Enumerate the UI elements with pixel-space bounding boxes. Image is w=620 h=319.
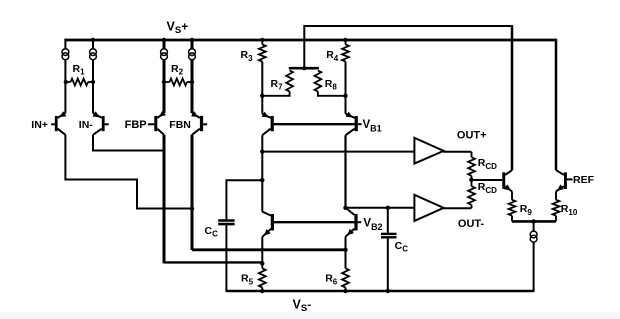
node rail-I3 junction <box>162 38 166 42</box>
label R10 <box>561 203 578 217</box>
label R1 <box>73 63 86 77</box>
resistor R6 <box>342 268 349 291</box>
wire current source I2 (IN- tail) to emitter <box>92 60 94 113</box>
wire CC1 branch <box>226 180 262 219</box>
current source I3 (FBP tail) <box>161 49 168 60</box>
svg-text:R10: R10 <box>561 203 578 217</box>
wire current source I3 (FBP tail) to emitter <box>163 60 166 113</box>
transistor Q5 cascode left (PNP) <box>262 112 274 136</box>
wire CC2 branch down <box>387 208 389 233</box>
label R3 <box>241 49 254 63</box>
current source I5 (output stage tail) <box>530 231 537 242</box>
wire rail to current source I3 (FBP tail) <box>163 39 166 49</box>
resistor R3 <box>259 40 266 96</box>
wire VB1 base line <box>274 123 355 125</box>
wire IN- collector to FBP collector <box>93 135 164 151</box>
wire CC2 bottom to VS- rail <box>387 239 389 291</box>
svg-text:IN+: IN+ <box>31 119 48 131</box>
label VS+ <box>167 20 189 37</box>
op-amp buffer B (OUT-) <box>414 195 443 221</box>
wire CM tap top line <box>304 25 512 27</box>
capacitor C1 (CC left) <box>218 221 234 225</box>
op-amp buffer A (OUT+) <box>414 138 443 164</box>
label FBP <box>125 119 147 131</box>
node R6 thick-net junction <box>343 248 347 252</box>
node left highZ buffer tap <box>260 149 264 153</box>
label R4 <box>326 49 339 63</box>
node R5 top <box>260 261 264 265</box>
label REF <box>573 174 595 186</box>
wire buffer B input line <box>346 207 415 209</box>
svg-text:R3: R3 <box>241 49 254 63</box>
resistor R9 <box>509 191 516 221</box>
node RCD center <box>469 178 473 182</box>
label VB1 <box>363 119 382 133</box>
svg-text:VB1: VB1 <box>363 119 382 133</box>
node rail-I4 junction <box>190 38 194 42</box>
transistor Q10 REF (NPN) <box>556 170 573 191</box>
label OUT+ <box>457 130 487 142</box>
wire R7-R8 apex bar <box>289 67 319 70</box>
wire buffer B output <box>443 207 471 209</box>
svg-text:FBN: FBN <box>169 119 191 131</box>
label R5 <box>241 273 254 287</box>
node R1 right <box>91 80 95 84</box>
svg-text:FBP: FBP <box>125 119 147 131</box>
transistor Q8 second stage right VB2 (NPN) <box>346 208 362 237</box>
node left cascode top <box>260 94 264 98</box>
node rail-R3 junction <box>260 38 264 42</box>
resistor RCD upper <box>468 152 475 180</box>
label CC left <box>205 225 219 239</box>
svg-text:OUT-: OUT- <box>458 218 485 230</box>
current source I1 (IN+ tail) <box>62 49 69 60</box>
label FBN <box>169 119 191 131</box>
transistor Q2 IN- (PNP) <box>93 111 109 135</box>
wire FBN net to R6 top <box>192 248 346 251</box>
svg-text:REF: REF <box>573 174 595 186</box>
power rail VS- <box>226 290 533 292</box>
resistor R10 <box>553 191 560 221</box>
resistor R1 <box>65 79 93 86</box>
svg-text:R5: R5 <box>241 273 254 287</box>
transistor Q9 CMFB (NPN) <box>502 170 512 191</box>
svg-text:VS-: VS- <box>293 297 312 314</box>
capacitor C2 (CC right) <box>381 234 397 237</box>
label VS- <box>293 297 312 314</box>
svg-text:R1: R1 <box>73 63 86 77</box>
transistor Q6 cascode right VB1 (PNP) <box>346 112 362 136</box>
label RCD upper <box>478 157 497 171</box>
svg-text:VB2: VB2 <box>363 217 382 231</box>
label R2 <box>171 63 184 77</box>
wire rail to current source I4 (FBN tail) <box>191 39 194 49</box>
wire buffer A output <box>443 151 471 153</box>
node tie-I5 junction <box>531 219 535 223</box>
node CC2 tap <box>386 206 390 210</box>
wire I5 to VS- rail <box>533 242 535 292</box>
node R2 right <box>190 80 194 84</box>
current source I4 (FBN tail) <box>189 49 196 60</box>
wire left cascode emitter <box>261 96 263 114</box>
resistor RCD lower <box>468 180 475 208</box>
svg-text:R2: R2 <box>171 63 184 77</box>
node CC2 rail junction <box>386 289 390 293</box>
resistor R4 <box>342 40 349 96</box>
wire buffer A input line <box>262 151 414 153</box>
wire VS+ rail to Q10 collector <box>555 39 558 171</box>
wire VS+ rail left corner down <box>64 39 66 49</box>
node apex-CM junction <box>302 66 306 70</box>
node R1 left <box>64 80 68 84</box>
wire Q9 collector from CM line <box>511 25 514 170</box>
svg-text:R7: R7 <box>271 78 284 92</box>
node R5 rail junction <box>260 289 264 293</box>
node rail-R4 junction <box>343 38 347 42</box>
svg-text:R4: R4 <box>326 49 339 63</box>
wire current source I4 (FBN tail) to emitter <box>191 60 194 113</box>
current source I2 (IN- tail) <box>90 49 97 60</box>
wire VB2 base line <box>274 221 354 223</box>
label R6 <box>325 273 338 287</box>
node left highZ CC tap <box>260 178 264 182</box>
label OUT- <box>458 218 485 230</box>
svg-text:R8: R8 <box>325 78 338 92</box>
label IN- <box>79 119 94 131</box>
wire tie to current source I5 <box>533 221 535 231</box>
resistor R2 <box>164 79 192 86</box>
resistor R5 <box>259 263 266 291</box>
wire right high-Z node column <box>344 135 346 208</box>
svg-text:VS+: VS+ <box>167 20 189 37</box>
node right highZ tap <box>343 206 347 210</box>
wire CC1 bottom to VS- rail <box>225 225 227 292</box>
svg-text:CC: CC <box>205 225 219 239</box>
power rail VS+ <box>64 39 556 42</box>
wire current source I1 (IN+ tail) to emitter <box>64 60 66 113</box>
decor <box>0 313 620 319</box>
resistor R7 <box>262 71 293 96</box>
svg-text:R6: R6 <box>325 273 338 287</box>
wire CM tap vertical <box>303 25 305 68</box>
wire IN+ collector staircase to FBN collector <box>65 135 192 209</box>
node rail-I2 junction <box>91 38 95 42</box>
node R6 rail junction <box>343 289 347 293</box>
wire rail to current source I2 (IN- tail) <box>92 39 94 49</box>
wire left high-Z node column <box>261 135 263 211</box>
svg-text:CC: CC <box>395 240 409 254</box>
label R7 <box>271 78 284 92</box>
label VB2 <box>363 217 382 231</box>
label IN+ <box>31 119 48 131</box>
svg-text:RCD: RCD <box>478 181 497 195</box>
svg-text:RCD: RCD <box>478 157 497 171</box>
wire FBP collector down <box>163 135 166 264</box>
wire right emitter to R6 <box>345 237 347 269</box>
node R2 left <box>162 80 166 84</box>
svg-text:R9: R9 <box>520 203 533 217</box>
transistor Q7 second stage left (NPN) <box>262 212 274 237</box>
svg-text:IN-: IN- <box>79 119 94 131</box>
wire right cascode emitter <box>345 96 347 114</box>
wire FBP net to R5 top <box>164 261 262 263</box>
wire left emitter to R5 <box>261 237 263 264</box>
transistor Q3 FBP (PNP) <box>148 111 166 135</box>
resistor R8 <box>315 71 346 96</box>
transistor Q1 IN+ (PNP) <box>51 111 66 135</box>
node right cascode top <box>343 94 347 98</box>
svg-text:OUT+: OUT+ <box>457 130 487 142</box>
wire FBN collector down <box>191 135 194 250</box>
label R8 <box>325 78 338 92</box>
transistor Q4 FBN (PNP) <box>191 111 207 135</box>
node staircase-FBN junction <box>190 206 194 210</box>
label R9 <box>520 203 533 217</box>
label CC right <box>395 240 409 254</box>
label RCD lower <box>478 181 497 195</box>
wire RCD center to Q9 base <box>471 179 502 181</box>
wire R9-R10 tie line <box>512 220 556 223</box>
